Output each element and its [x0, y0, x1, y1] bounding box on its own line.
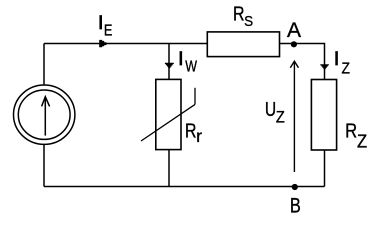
node B [292, 184, 298, 190]
svg-text:B: B [290, 194, 301, 217]
wire middle branch (top rail to varistor) [168, 44, 170, 80]
label I_E [98, 12, 112, 40]
svg-text:U: U [265, 98, 276, 120]
wire R_Z bottom to bottom rail [324, 150, 326, 187]
current source [14, 85, 75, 144]
wire top-left horizontal [44, 43, 207, 45]
svg-text:I: I [178, 48, 183, 70]
svg-text:Z: Z [276, 108, 285, 126]
svg-text:W: W [185, 57, 197, 75]
svg-text:R: R [345, 119, 357, 142]
wire left vertical (top) [43, 44, 45, 86]
label R_r [185, 119, 202, 147]
svg-text:I: I [334, 48, 339, 70]
arrow I_W [165, 63, 174, 69]
svg-text:Z: Z [342, 61, 351, 78]
svg-text:A: A [287, 19, 301, 42]
voltage arrow U_Z [290, 61, 298, 172]
svg-text:Z: Z [357, 131, 367, 152]
label R_Z [345, 119, 367, 152]
resistor R_Z [311, 80, 336, 151]
label U_Z [265, 98, 285, 127]
arrow I_E [99, 40, 106, 47]
svg-text:E: E [104, 23, 113, 41]
wire left vertical (bottom) [43, 145, 45, 187]
svg-text:S: S [244, 13, 253, 30]
arrow I_Z [320, 64, 329, 70]
resistor R_S [207, 32, 279, 57]
wire R_S right to corner and down right branch [280, 44, 325, 80]
wire varistor bottom to bottom rail [168, 150, 170, 187]
label R_S [233, 3, 253, 31]
wire bottom horizontal [44, 186, 325, 188]
varistor R_r [141, 79, 195, 149]
svg-text:R: R [185, 119, 197, 142]
svg-text:R: R [233, 3, 245, 25]
svg-text:r: r [196, 126, 202, 146]
svg-text:I: I [98, 12, 103, 34]
label I_W [178, 48, 198, 75]
label I_Z [334, 48, 350, 78]
node A [291, 41, 297, 47]
